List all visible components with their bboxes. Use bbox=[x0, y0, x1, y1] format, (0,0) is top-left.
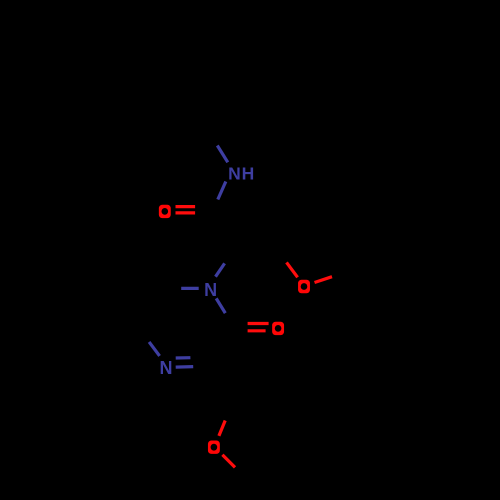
svg-text:N: N bbox=[204, 280, 217, 300]
svg-text:NH: NH bbox=[228, 164, 255, 184]
svg-text:N: N bbox=[160, 358, 173, 378]
